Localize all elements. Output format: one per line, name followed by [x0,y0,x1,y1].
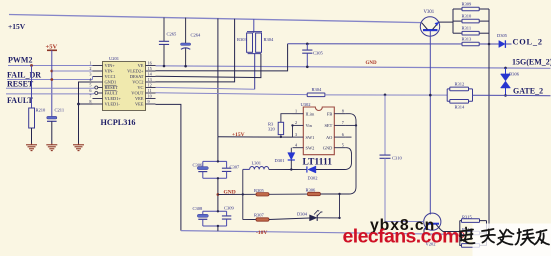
svg-text:2: 2 [89,66,91,71]
svg-text:15: 15 [148,66,152,71]
svg-text:U201: U201 [109,56,119,61]
svg-text:10: 10 [148,94,152,99]
svg-text:D306: D306 [509,72,520,77]
svg-text:SET: SET [324,123,332,128]
wire V301 base drop long vertical [429,31,431,215]
U302 left pin stubs [293,114,304,148]
wire U302 pin5 rounded corner to D302 line [337,148,352,170]
svg-text:U302: U302 [301,102,311,107]
wire FAIL_DR corner into pin3 [92,77,94,80]
svg-text:R314: R314 [455,105,466,110]
junction +5V/pin2 wire [50,70,53,73]
wire VC pin12 merge [156,87,255,89]
svg-text:C265: C265 [167,32,178,37]
wire resistor bank left bar [452,9,454,33]
svg-text:6: 6 [342,132,344,137]
svg-text:V301: V301 [424,10,435,15]
svg-text:C211: C211 [55,108,65,113]
wire GATE line [473,94,551,97]
watermark chinese text 电子发烧友 [460,228,550,246]
svg-text:FAULT: FAULT [7,96,33,105]
svg-text:13: 13 [148,77,152,82]
svg-text:320: 320 [268,127,276,132]
svg-text:VC: VC [137,85,143,90]
svg-text:5: 5 [342,143,344,148]
svg-text:VE: VE [138,63,144,68]
svg-text:C264: C264 [191,33,202,38]
svg-text:R306: R306 [306,188,317,193]
svg-text:SW1: SW1 [306,135,315,140]
svg-text:3: 3 [89,72,91,77]
resistor R210 [31,66,33,109]
wire DESAT pin14 to pair bottom [156,54,261,78]
svg-text:RESET: RESET [7,80,34,89]
U302 right pin stubs [334,114,345,148]
svg-text:elecfans.com: elecfans.com [343,226,460,248]
U302 pin numbers [295,109,344,148]
svg-text:COL_2: COL_2 [513,38,543,47]
wire U302 pin7 to FB column [345,124,356,126]
svg-text:12: 12 [148,83,152,88]
wire VOUT pin11 line [156,93,308,95]
wire C310 column to V202 base [385,221,424,223]
svg-text:1: 1 [89,61,91,66]
svg-text:Vin: Vin [306,123,313,128]
wire V202 collector to gate resistors [441,230,460,232]
svg-text:ILim: ILim [306,112,315,117]
wire +15V drop to LT1111 supply line [217,18,219,136]
junction pin8/ground column [77,103,80,106]
diode D301 [290,148,292,153]
svg-text:GATE_2: GATE_2 [513,87,543,96]
transistor V202 [424,213,441,230]
svg-text:VEE: VEE [135,102,144,107]
svg-text:DESAT: DESAT [130,74,144,79]
wire gate bank right bar [486,221,488,246]
resistor R307 [243,219,256,221]
wire PWM2 to pin1 [8,65,93,67]
wire GND line right [218,193,256,195]
svg-text:VLED2+: VLED2+ [127,69,144,74]
svg-text:R303: R303 [237,37,248,42]
wire VCC2 pin13 riser [156,19,235,82]
wire VEE pin9 long drop [156,104,181,230]
U201 right pin names [127,63,144,107]
svg-text:R310: R310 [462,14,473,19]
wire RESET to pin5 [6,87,95,90]
svg-text:GND: GND [366,61,378,66]
wire FAIL_DR to pin3 [7,79,93,81]
svg-text:2: 2 [295,120,297,125]
svg-text:+15V: +15V [232,132,245,138]
wire bottom -10V rail [181,231,455,235]
svg-text:R312: R312 [455,82,465,87]
U201 left pin stubs [93,66,103,105]
svg-text:VIN-: VIN- [105,69,115,74]
capacitor C265 [163,18,165,42]
wire U302 pin6 stub [345,136,351,138]
svg-text:GND: GND [323,146,333,151]
wire C308/C309 node bars [203,211,227,226]
wire GND node line [217,178,219,211]
svg-text:R313: R313 [462,37,473,42]
resistor R317 [462,244,480,248]
U201 left pin numbers [89,61,92,105]
wire pair top/bottom bars [247,31,262,33]
wire L301 left corner down [242,169,244,219]
svg-text:GND1: GND1 [105,80,117,85]
svg-text:VLED1+: VLED1+ [105,96,122,101]
svg-text:L301: L301 [252,161,262,166]
svg-text:PWM2: PWM2 [8,56,32,65]
svg-text:AO: AO [326,135,332,140]
svg-text:R304: R304 [264,37,275,42]
wire to pin2 [52,70,93,72]
wire +5V vertical [51,50,53,116]
pin 6 bubble [95,92,98,95]
svg-text:LT1111: LT1111 [303,157,333,168]
svg-text:D302: D302 [308,176,318,181]
ground symbol 2 [46,144,57,151]
svg-text:16: 16 [148,61,152,66]
wire C306/C307 node bars [203,161,227,178]
svg-text:FB: FB [327,112,332,117]
svg-text:D304: D304 [297,212,308,217]
svg-text:R304: R304 [312,87,323,92]
diode D306 bidirectional [504,67,507,70]
svg-text:FAULT: FAULT [105,91,119,96]
svg-text:9: 9 [148,99,150,104]
svg-text:VLED1-: VLED1- [105,102,121,107]
svg-text:-10V: -10V [256,230,267,236]
svg-text:C310: C310 [392,156,403,161]
U302 pin names [306,112,315,151]
svg-text:3: 3 [295,132,297,137]
wire FAULT to pin6 [6,92,95,95]
svg-text:R309: R309 [462,2,473,7]
pin 5 bubble [95,86,98,89]
op-amp U201 HCPL316 body [103,62,146,111]
svg-text:D301: D301 [275,158,285,163]
wire COL line [288,43,499,45]
wire U302 pin8 FB rounded drop [340,114,357,194]
svg-text:11: 11 [148,88,152,93]
svg-text:R210: R210 [36,108,47,113]
svg-text:HCPL316: HCPL316 [101,118,136,127]
wire V301 emitter to resistor bank [439,21,453,23]
svg-text:8: 8 [89,99,91,104]
svg-text:+5V: +5V [46,44,58,51]
U201 pin name overlines RESET FAULT [105,85,117,91]
svg-text:C308: C308 [193,206,204,211]
svg-text:R307: R307 [254,213,265,218]
svg-text:SW2: SW2 [306,146,315,151]
wire stem to -10V rail [217,226,219,231]
wire pin8 VLED1- to ground column [79,103,93,105]
op-amp U302 LT1111 body [303,107,334,155]
resistor R3 320 [281,114,293,123]
svg-text:VOUT: VOUT [131,91,144,96]
ground symbol 1 [26,144,37,151]
wire V202 emitter to rail [423,230,425,234]
svg-text:D305: D305 [497,33,508,38]
svg-text:6: 6 [89,88,91,93]
svg-text:C309: C309 [224,206,235,211]
U201 right pin numbers [148,61,153,105]
wire VLED2+ pin15 riser to COL line [156,44,288,71]
junction PWM2/R210 [30,64,33,67]
svg-text:R311: R311 [462,26,472,31]
U201 right pin stubs [146,66,156,105]
svg-text:VIN+: VIN+ [105,63,116,68]
wire gate resistor bank left bar [459,221,461,246]
svg-text:7: 7 [342,120,344,125]
junction +5V/FAIL_DR [50,78,53,81]
diode D302 [291,169,307,171]
wire Vin pin2 drop [292,125,294,137]
svg-text:VEE: VEE [135,96,144,101]
resistor R303 (left of parallel pair) [253,19,255,31]
svg-text:5: 5 [89,83,91,88]
svg-text:7: 7 [89,94,91,99]
svg-text:VCC2: VCC2 [132,80,143,85]
wire resistor bank right bar / long bus down [488,9,490,233]
wire +15V top rail [9,15,422,23]
capacitor C305 [306,43,309,46]
svg-text:1: 1 [295,109,297,114]
capacitor C264 polarized [185,18,187,43]
wire FB column junction vertical [339,194,341,218]
ground symbol 3 [73,144,84,151]
svg-text:8: 8 [342,109,344,114]
watermark white box [473,224,551,256]
wire GND / 15G(EM_2) long line from pin16 [156,66,551,69]
capacitor C310 column [384,94,387,97]
wire +15V supply line to SW1 [218,136,293,138]
svg-text:15G(EM_2): 15G(EM_2) [512,58,551,67]
svg-text:FAIL_DR: FAIL_DR [7,71,41,80]
svg-text:RESET: RESET [105,85,119,90]
svg-text:VCC1: VCC1 [105,74,116,79]
U201 left pin names [105,63,122,107]
svg-text:+15V: +15V [8,22,26,31]
wire pin4 GND1 down [79,82,93,144]
svg-text:C305: C305 [313,51,324,56]
